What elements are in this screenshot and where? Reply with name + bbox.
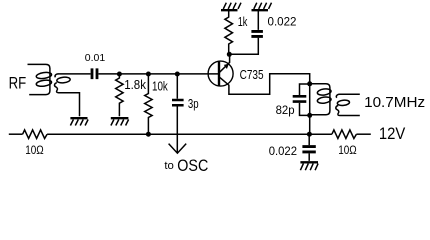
transformer T1 left winding — [28, 64, 50, 94]
svg-text:1.8k: 1.8k — [124, 77, 146, 92]
resistor R3 10k — [145, 75, 152, 135]
capacitor C3 0.022 top — [257, 11, 259, 30]
transformer T2 primary winding — [310, 84, 330, 115]
wire 12V rail middle — [47, 133, 332, 135]
Q1 emitter lead up — [220, 54, 230, 72]
node rail-R3 — [146, 132, 151, 137]
wire 12V rail left end — [9, 133, 23, 135]
wire 12V rail right end — [356, 133, 370, 135]
node tank top — [307, 81, 312, 86]
transistor Q1 C735 circle — [208, 61, 233, 86]
node base-C2 — [175, 72, 180, 77]
node emitter — [227, 52, 232, 57]
wire C1 to Q1 base — [99, 73, 219, 75]
Q1 base bar — [218, 62, 220, 86]
capacitor C4 82p — [300, 84, 310, 95]
transformer T1 right winding — [55, 74, 58, 77]
node base-R3 — [146, 72, 151, 77]
svg-text:C735: C735 — [240, 68, 264, 82]
svg-text:to: to — [164, 160, 174, 172]
svg-text:10k: 10k — [152, 80, 168, 94]
ground under T1 — [70, 118, 88, 125]
capacitor C5 0.022 bottom — [308, 134, 310, 145]
wire main top wire transformer to C1 — [58, 73, 91, 75]
svg-text:RF: RF — [9, 74, 27, 93]
arrow to OSC — [169, 144, 187, 154]
inverted ground above R1 — [221, 3, 241, 11]
ground under C5 — [300, 162, 318, 170]
Q1 collector lead and bus to tank — [220, 74, 310, 135]
transformer T2 secondary winding — [336, 94, 359, 97]
resistor R4 10 ohm left — [23, 130, 47, 139]
Q1 emitter arrowhead — [224, 64, 229, 69]
svg-text:0.022: 0.022 — [269, 144, 298, 158]
resistor R1 1k — [225, 11, 233, 54]
capacitor C1 0.01 plates — [92, 68, 97, 79]
inverted ground above C3 — [252, 3, 272, 11]
svg-text:10Ω: 10Ω — [338, 143, 357, 157]
node tank bottom — [307, 113, 312, 118]
resistor R2 1.8k — [116, 75, 123, 117]
ground under R2 — [111, 118, 129, 125]
junction dots — [117, 52, 312, 137]
node rail-bus — [307, 132, 312, 137]
svg-text:10.7MHz: 10.7MHz — [364, 95, 425, 111]
capacitor C2 3p — [176, 75, 178, 99]
svg-text:OSC: OSC — [177, 157, 208, 175]
resistor R5 10 ohm right — [332, 130, 357, 139]
svg-text:1k: 1k — [238, 15, 248, 29]
svg-text:0.022: 0.022 — [268, 15, 297, 29]
node base-R2 — [117, 72, 122, 77]
svg-text:10Ω: 10Ω — [25, 143, 44, 157]
svg-text:82p: 82p — [276, 103, 295, 117]
svg-text:3p: 3p — [188, 97, 199, 111]
svg-text:12V: 12V — [379, 124, 406, 143]
svg-text:0.01: 0.01 — [85, 53, 106, 64]
